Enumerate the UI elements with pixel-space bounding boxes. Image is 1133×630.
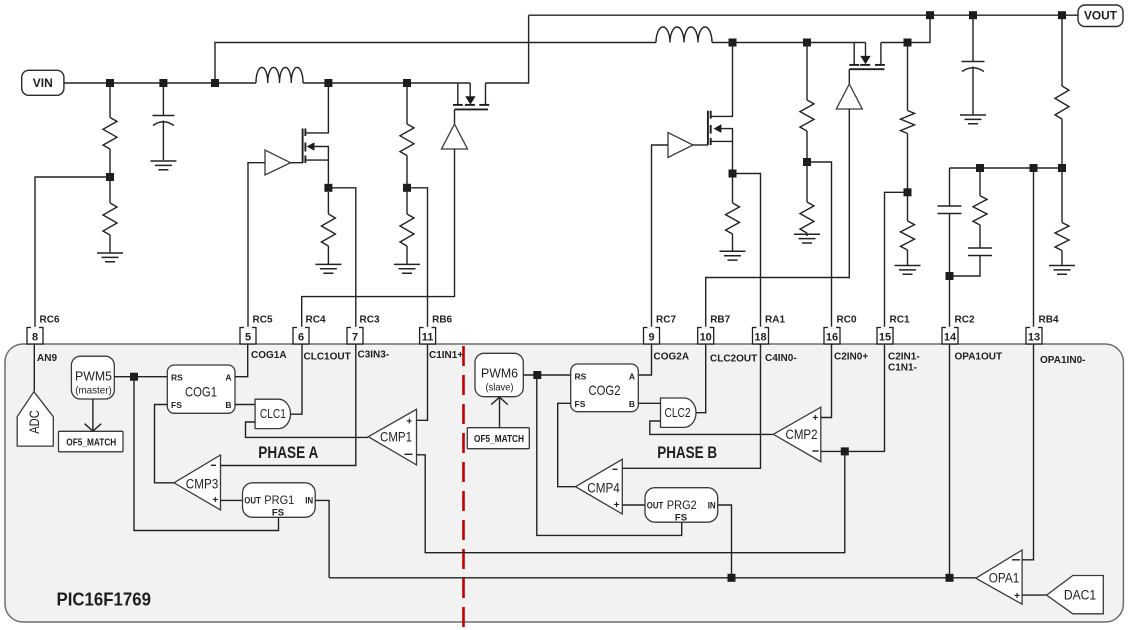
label RC1 xyxy=(890,315,910,326)
transistor Q1 source wire xyxy=(305,160,328,184)
svg-text:RA1: RA1 xyxy=(765,315,785,326)
wire pin6 to driver U3 xyxy=(302,149,455,328)
comparator CMP1 xyxy=(368,409,416,465)
wire CMP1 plus to pin 11 xyxy=(417,344,428,420)
wire pin10 to driver U5 xyxy=(706,109,850,328)
svg-text:11: 11 xyxy=(422,331,434,343)
resistor R2 (VIN divider bottom) xyxy=(103,177,117,253)
resistor R10 (output divider B bottom) xyxy=(901,192,915,265)
transistor Q2 source lead xyxy=(453,83,463,105)
block PWM6 xyxy=(475,353,523,396)
resistor R11 (feedback divider top) xyxy=(1055,15,1069,168)
ground (divider B) xyxy=(794,234,820,243)
svg-text:13: 13 xyxy=(1028,331,1040,343)
svg-text:CLC2OUT: CLC2OUT xyxy=(710,354,757,365)
wire VOUT rail xyxy=(529,14,1078,16)
wire PWM5 to PRG1 FS xyxy=(134,377,279,531)
svg-text:A: A xyxy=(629,372,635,382)
svg-text:B: B xyxy=(225,400,231,410)
ground (feedback divider) xyxy=(1049,266,1075,275)
wire pin18 to CMP4 xyxy=(622,344,760,468)
op-amp OPA1 xyxy=(976,550,1022,604)
block DAC1 xyxy=(1047,576,1104,614)
label RC2 xyxy=(955,315,975,326)
label C1IN1+ xyxy=(429,350,463,361)
block CLC1 xyxy=(255,399,290,428)
wire CMP2 minus to pin 15 xyxy=(821,344,885,451)
label C2IN1- xyxy=(888,352,920,363)
label C1N1- xyxy=(888,363,917,374)
transistor Q1 drain wire xyxy=(305,83,328,133)
svg-text:AN9: AN9 xyxy=(37,353,57,364)
svg-text:PHASE B: PHASE B xyxy=(657,444,717,462)
wire COG2 B to CLC2 xyxy=(638,402,660,404)
arrow PWM5 to OF5_MATCH xyxy=(85,399,102,431)
label PHASE B xyxy=(657,444,717,462)
junction phase-B feed tap xyxy=(211,79,219,87)
transistor Q2 gate bar xyxy=(455,108,489,110)
svg-text:OF5_MATCH: OF5_MATCH xyxy=(474,434,524,445)
svg-text:IN: IN xyxy=(708,500,716,511)
svg-text:OPA1IN0-: OPA1IN0- xyxy=(1040,355,1086,366)
resistor R12 (feedback divider bottom) xyxy=(1055,168,1069,266)
junction current sense B xyxy=(729,170,737,178)
svg-text:COG1A: COG1A xyxy=(251,350,287,361)
resistor R1 (VIN divider top) xyxy=(103,83,117,177)
arrow OF5_MATCH to PWM6 xyxy=(491,397,508,428)
transistor Q4 drain lead xyxy=(875,43,885,65)
pin 6 (RC4) xyxy=(293,328,309,345)
svg-text:PHASE A: PHASE A xyxy=(258,444,318,462)
pin 9 (RC7) xyxy=(644,328,660,345)
svg-text:RS: RS xyxy=(575,372,587,382)
svg-text:IN: IN xyxy=(305,496,313,507)
wire CLC2 out to pin 10 xyxy=(696,344,706,413)
resistor R6 (phase B current sense) xyxy=(726,178,740,252)
svg-text:PIC16F1769: PIC16F1769 xyxy=(57,588,152,609)
svg-text:OPA1: OPA1 xyxy=(989,571,1020,586)
wire CMP4 plus to PRG2 xyxy=(622,504,645,506)
svg-text:16: 16 xyxy=(826,331,838,343)
wire COG1 A to pin 5 xyxy=(235,344,248,377)
label C3IN3- xyxy=(358,350,390,361)
svg-text:RC5: RC5 xyxy=(253,315,273,326)
svg-text:+: + xyxy=(614,500,620,511)
wire COG2 A to pin 9 xyxy=(638,344,651,375)
transistor Q2 body stem and arrow xyxy=(465,83,476,105)
svg-text:PRG2: PRG2 xyxy=(667,498,697,512)
junction compensation node xyxy=(976,164,984,172)
svg-text:C2IN1-: C2IN1- xyxy=(888,352,920,363)
label RB4 xyxy=(1039,315,1059,326)
label RA1 xyxy=(765,315,785,326)
wire pin8 to ADC xyxy=(33,344,35,391)
wire sense B to pin 18 xyxy=(733,174,761,328)
svg-text:COG2A: COG2A xyxy=(654,352,690,363)
wire VIN rail xyxy=(64,82,256,84)
svg-text:15: 15 xyxy=(879,331,891,343)
wire AN9 tap to pin 8 xyxy=(35,177,110,328)
phase divider dashed line xyxy=(462,346,465,628)
wire PWM5 to COG1 RS xyxy=(114,376,167,378)
wire CMP1 out to CLC1 xyxy=(246,422,369,437)
ground (input cap) xyxy=(150,161,176,170)
wire divider A to pin 11 xyxy=(407,188,428,328)
label CLC2OUT xyxy=(710,354,757,365)
label RC0 xyxy=(837,315,857,326)
svg-text:RC6: RC6 xyxy=(40,315,60,326)
svg-text:CLC1: CLC1 xyxy=(260,407,286,421)
junction CMP minus bus xyxy=(841,447,849,455)
transistor Q3 channel xyxy=(710,111,712,145)
label RB7 xyxy=(710,315,730,326)
junction output sense tap xyxy=(904,39,912,47)
wire VIN to phase B rail xyxy=(215,43,656,84)
comparator CMP2 xyxy=(773,407,821,462)
svg-text:RC3: RC3 xyxy=(360,315,380,326)
svg-text:CMP2: CMP2 xyxy=(786,427,818,442)
transistor Q3 body arrow xyxy=(714,124,733,141)
inductor L1 (phase A) xyxy=(256,67,303,83)
node VOUT terminal xyxy=(1078,5,1123,27)
block CLC2 xyxy=(661,398,697,427)
transistor Q4 body stem and arrow xyxy=(860,43,871,65)
svg-text:VIN: VIN xyxy=(33,76,53,90)
junction OPA1IN tap xyxy=(1030,164,1038,172)
junction feedback divider mid xyxy=(1058,164,1066,172)
wire compensation bus xyxy=(950,167,1063,169)
wire CMP1 minus bus xyxy=(417,451,845,552)
transistor Q3 gate bar xyxy=(707,111,709,145)
resistor R9 (output divider B top) xyxy=(901,43,915,193)
svg-text:6: 6 xyxy=(298,331,304,343)
node VIN terminal xyxy=(22,70,64,95)
capacitor C1 (input) xyxy=(152,83,174,160)
svg-text:(slave): (slave) xyxy=(486,383,514,394)
wire pin14 into PIC xyxy=(949,344,951,578)
wire PRG1 IN to error bus xyxy=(315,500,329,577)
svg-text:RC1: RC1 xyxy=(890,315,910,326)
svg-text:C1N1-: C1N1- xyxy=(888,363,917,374)
svg-text:COG2: COG2 xyxy=(589,382,621,398)
gate driver U5 (phase B sync) xyxy=(836,69,862,109)
svg-text:CMP1: CMP1 xyxy=(380,430,412,445)
comparator CMP4 xyxy=(576,459,623,514)
wire COG1 B to CLC1 xyxy=(235,404,255,406)
junction input-cap tap xyxy=(159,79,167,87)
junction OPA1 out to pin 14 xyxy=(946,574,954,582)
svg-text:RC0: RC0 xyxy=(837,315,857,326)
label RC4 xyxy=(306,315,326,326)
svg-text:C4IN0-: C4IN0- xyxy=(765,353,797,364)
pin 5 (RC5) xyxy=(240,328,256,345)
capacitor C4 (compensation) xyxy=(950,248,993,276)
wire divider B to pin 16 xyxy=(807,162,832,328)
junction PWM6 net xyxy=(533,371,541,379)
label AN9 xyxy=(37,353,57,364)
junction feedback divider tap xyxy=(1058,11,1066,19)
svg-text:COG1: COG1 xyxy=(185,384,217,400)
svg-text:+: + xyxy=(1014,591,1020,602)
svg-text:ADC: ADC xyxy=(27,410,42,434)
resistor R8 (divider B bottom) xyxy=(800,162,814,236)
wire PWM6 to COG2 RS xyxy=(523,374,570,376)
junction switch node A xyxy=(324,79,332,87)
ground (phase A sense) xyxy=(315,264,341,273)
svg-text:5: 5 xyxy=(245,331,251,343)
resistor R13 (compensation) xyxy=(973,168,987,248)
wire CMP2 plus to pin 16 xyxy=(821,344,832,418)
ground (phase B sense) xyxy=(720,251,746,260)
wire pin7 to CMP3 xyxy=(221,344,356,466)
svg-text:CLC1OUT: CLC1OUT xyxy=(304,352,351,363)
label PHASE A xyxy=(258,444,318,462)
label OPA1OUT xyxy=(955,352,1003,363)
transistor Q2 drain lead xyxy=(479,83,489,105)
wire pin5 to driver U2 xyxy=(248,163,265,328)
wire OPA1 minus to pin 13 xyxy=(1022,344,1033,560)
transistor Q3 source wire xyxy=(711,141,733,169)
svg-text:PWM5: PWM5 xyxy=(75,370,112,384)
pin 11 (RB6) xyxy=(420,328,436,345)
resistor R7 (divider B top) xyxy=(800,43,814,163)
svg-text:18: 18 xyxy=(754,331,766,343)
svg-text:C1IN1+: C1IN1+ xyxy=(429,350,463,361)
inductor L2 (phase B) xyxy=(656,27,712,43)
wire PRG2 IN to error bus xyxy=(718,505,732,578)
wire error bus OPA1 out xyxy=(329,577,976,579)
wire CMP4 out to COG2 FS xyxy=(558,403,575,486)
block COG2 xyxy=(571,364,639,412)
wire comp network to pin 14 xyxy=(949,276,951,328)
label RC6 xyxy=(40,315,60,326)
wire CMP3 plus to PRG1 xyxy=(221,499,243,501)
block PWM5 xyxy=(71,356,114,399)
svg-text:A: A xyxy=(225,373,231,383)
gate driver U2 (phase A low-side) xyxy=(265,150,303,175)
resistor R3 (phase A current sense) xyxy=(321,192,335,264)
junction divider B mid xyxy=(803,158,811,166)
capacitor C3 (compensation) xyxy=(938,168,962,272)
svg-text:+: + xyxy=(212,495,218,506)
junction VIN-divider tap xyxy=(106,79,114,87)
svg-text:RC7: RC7 xyxy=(656,315,676,326)
MCU block PIC16F1769 xyxy=(5,344,1123,622)
transistor Q1 body arrow xyxy=(307,142,329,160)
pin 13 (RB4) xyxy=(1026,328,1042,345)
ground (VIN divider) xyxy=(97,253,123,262)
junction divider B tap xyxy=(803,39,811,47)
wire switch node A xyxy=(303,82,470,84)
block COG1 xyxy=(167,365,235,413)
block PRG1 xyxy=(243,483,316,519)
block PRG2 xyxy=(645,488,718,524)
wire CMP2 out to CLC2 xyxy=(650,421,774,434)
label CLC1OUT xyxy=(304,352,351,363)
junction divider A mid xyxy=(403,184,411,192)
ground (divider A) xyxy=(394,264,420,273)
label COG1A xyxy=(251,350,287,361)
label RC7 xyxy=(656,315,676,326)
svg-text:OF5_MATCH: OF5_MATCH xyxy=(66,438,116,449)
transistor Q1 channel xyxy=(304,129,306,164)
svg-text:8: 8 xyxy=(32,331,38,343)
svg-text:+: + xyxy=(406,416,412,427)
transistor Q4 source lead xyxy=(849,43,859,65)
svg-text:OUT: OUT xyxy=(244,496,261,507)
svg-text:9: 9 xyxy=(648,331,654,343)
wire OPA1 plus to DAC1 xyxy=(1022,594,1047,596)
pin 14 (RC2) xyxy=(942,328,958,345)
label RC3 xyxy=(360,315,380,326)
svg-text:B: B xyxy=(629,399,635,409)
transistor Q4 gate bar xyxy=(849,68,884,70)
svg-text:14: 14 xyxy=(944,331,957,343)
junction switch node B xyxy=(729,39,737,47)
wire CLC1 out to pin 6 xyxy=(291,344,303,414)
label C2IN0+ xyxy=(834,352,868,363)
label RC5 xyxy=(253,315,273,326)
label PIC16F1769 xyxy=(57,588,152,609)
svg-text:+: + xyxy=(812,413,818,424)
svg-text:FS: FS xyxy=(575,399,586,409)
ground (output cap) xyxy=(960,115,986,124)
transistor Q3 drain wire xyxy=(711,43,733,117)
pin 8 (RC6) xyxy=(27,328,43,345)
label RB6 xyxy=(432,315,452,326)
block OF5_MATCH A xyxy=(59,431,124,452)
junction PRG IN bus xyxy=(728,574,736,582)
capacitor C2 (output) xyxy=(962,15,985,114)
wire feedback to pin 13 xyxy=(1033,168,1035,328)
label COG2A xyxy=(654,352,690,363)
pin 7 (RC3) xyxy=(347,328,363,345)
svg-text:C2IN0+: C2IN0+ xyxy=(834,352,868,363)
block ADC xyxy=(17,392,53,446)
svg-text:RB6: RB6 xyxy=(432,315,452,326)
svg-text:FS: FS xyxy=(272,508,284,519)
svg-text:OPA1OUT: OPA1OUT xyxy=(955,352,1003,363)
junction current sense A xyxy=(324,184,332,192)
svg-text:10: 10 xyxy=(700,331,712,343)
svg-text:RS: RS xyxy=(171,373,183,383)
wire pin9 to driver U4 xyxy=(652,145,669,328)
wire switch node B xyxy=(712,42,866,44)
wire phase A output to VOUT rail xyxy=(486,15,529,83)
svg-text:RC2: RC2 xyxy=(955,315,975,326)
svg-text:FS: FS xyxy=(171,400,182,410)
svg-text:VOUT: VOUT xyxy=(1084,9,1118,23)
pin 16 (RC0) xyxy=(824,328,840,345)
wire sense A to pin 7 xyxy=(328,188,355,328)
svg-text:CMP4: CMP4 xyxy=(587,481,620,496)
block OF5_MATCH B xyxy=(467,428,529,449)
pin 15 (RC1) xyxy=(877,328,893,345)
wire output divider B to pin 15 xyxy=(885,192,908,327)
svg-text:RC4: RC4 xyxy=(306,315,326,326)
junction AN9 tap xyxy=(106,173,114,181)
svg-text:(master): (master) xyxy=(75,386,112,397)
junction PWM5 net xyxy=(130,373,138,381)
wire CMP3 out to COG1 FS xyxy=(155,405,175,483)
svg-text:7: 7 xyxy=(352,331,358,343)
pin 18 (RA1) xyxy=(753,328,769,345)
gate driver U3 (phase A sync) xyxy=(442,109,468,149)
resistor R5 (divider A bottom) xyxy=(400,188,414,265)
svg-text:DAC1: DAC1 xyxy=(1064,587,1096,602)
transistor Q1 gate bar xyxy=(302,129,304,164)
pin 10 (RB7) xyxy=(698,328,714,345)
svg-text:CMP3: CMP3 xyxy=(186,477,219,492)
svg-text:PWM6: PWM6 xyxy=(481,367,518,381)
junction VOUT rail phase B xyxy=(926,11,934,19)
wire PWM6 to PRG2 FS xyxy=(537,375,682,535)
gate driver U4 (phase B low-side) xyxy=(668,133,708,158)
ground (output divider B) xyxy=(895,266,921,275)
svg-text:CLC2: CLC2 xyxy=(665,406,691,420)
label C4IN0- xyxy=(765,353,797,364)
svg-text:RB4: RB4 xyxy=(1039,315,1059,326)
resistor R4 (divider A top) xyxy=(400,83,414,188)
junction output divider B mid xyxy=(904,188,912,196)
svg-text:C3IN3-: C3IN3- xyxy=(358,350,390,361)
comparator CMP3 xyxy=(174,455,221,510)
svg-text:OUT: OUT xyxy=(647,500,664,511)
junction divider A tap xyxy=(403,79,411,87)
label OPA1IN0- xyxy=(1040,355,1086,366)
junction output cap tap xyxy=(969,11,977,19)
wire phase B output to VOUT rail xyxy=(881,15,930,42)
svg-text:PRG1: PRG1 xyxy=(264,493,294,507)
svg-text:FS: FS xyxy=(675,512,687,523)
svg-text:RB7: RB7 xyxy=(710,315,730,326)
junction comp to OPA1OUT xyxy=(946,272,954,280)
